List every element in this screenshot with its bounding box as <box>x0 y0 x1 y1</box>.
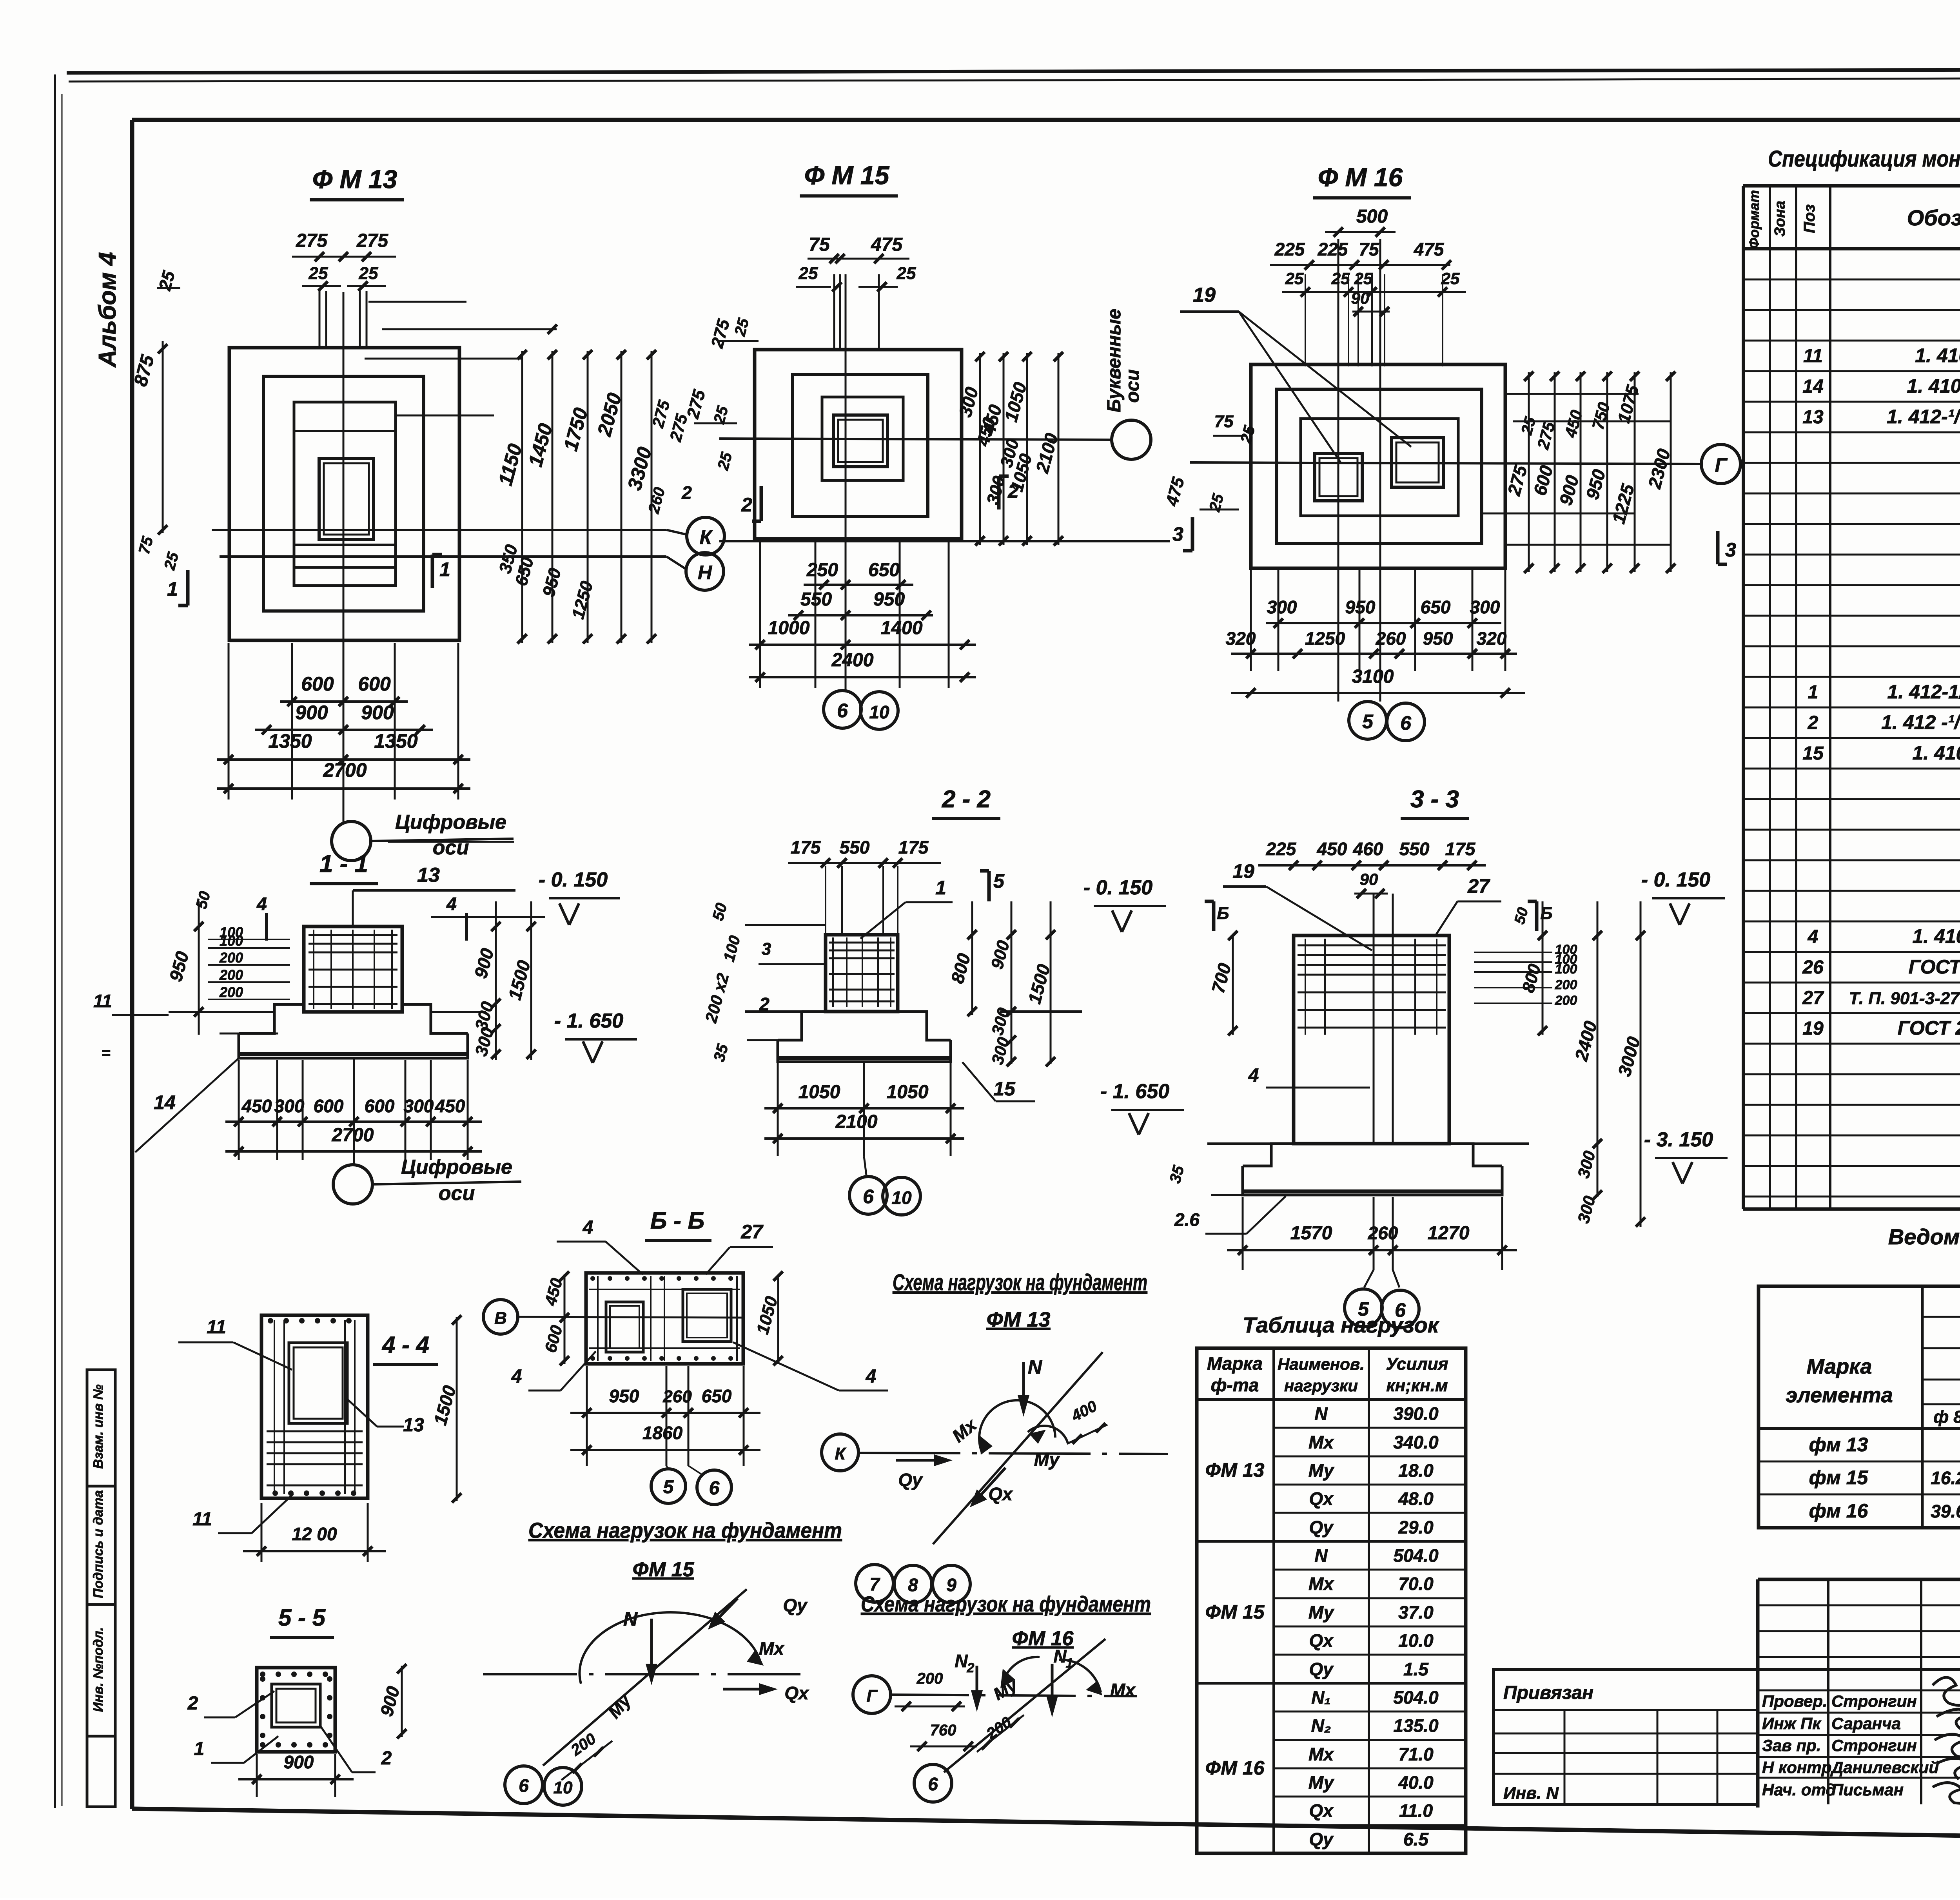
plan FM15 top extension lines <box>833 274 835 351</box>
svg-text:4: 4 <box>866 1366 877 1387</box>
section 4-4 edge dots <box>268 1318 273 1323</box>
svg-text:1860: 1860 <box>642 1423 683 1443</box>
svg-text:3: 3 <box>1725 539 1736 561</box>
svg-text:1350: 1350 <box>268 730 312 752</box>
plan FM13 axis circle bottom <box>332 821 371 861</box>
svg-text:2100: 2100 <box>835 1111 878 1132</box>
svg-text:250: 250 <box>806 560 838 580</box>
svg-text:К: К <box>835 1444 846 1463</box>
svg-text:Письман: Письман <box>1831 1780 1904 1799</box>
section 1-1 axis circle <box>333 1165 372 1204</box>
svg-text:6.5: 6.5 <box>1403 1829 1429 1849</box>
section 5-5 outer rect <box>257 1668 335 1752</box>
load table grid <box>1197 1348 1466 1853</box>
svg-text:ФМ 15: ФМ 15 <box>633 1558 695 1581</box>
svg-text:Qх: Qх <box>988 1484 1013 1504</box>
svg-text:450: 450 <box>435 1096 465 1116</box>
svg-text:13: 13 <box>1802 407 1824 428</box>
svg-text:Подпись и дата: Подпись и дата <box>91 1490 106 1598</box>
svg-text:175: 175 <box>898 837 929 858</box>
load scheme FM16 axis circle 6 <box>914 1764 952 1802</box>
svg-text:Ф М 15: Ф М 15 <box>804 161 890 190</box>
axis H line <box>220 555 666 558</box>
svg-text:1: 1 <box>194 1739 205 1759</box>
steel table grid <box>1759 1286 1960 1528</box>
svg-text:ФМ 16: ФМ 16 <box>1205 1757 1265 1779</box>
main frame <box>132 118 1960 122</box>
plan FM13 column <box>319 459 374 539</box>
svg-text:Формат: Формат <box>1746 190 1762 249</box>
svg-text:- 0. 150: - 0. 150 <box>539 868 608 891</box>
plan FM16 ring2 <box>1277 389 1482 544</box>
svg-text:Ф М 13: Ф М 13 <box>312 165 397 194</box>
svg-text:12 00: 12 00 <box>292 1524 337 1544</box>
svg-text:1: 1 <box>935 877 946 899</box>
section 1-1 step <box>274 1004 304 1012</box>
svg-text:2: 2 <box>681 482 692 503</box>
privyazan block <box>1494 1670 1758 1804</box>
svg-text:475: 475 <box>1414 239 1445 259</box>
svg-text:15: 15 <box>993 1078 1016 1100</box>
plan FM16 center axis <box>1190 462 1701 464</box>
section 5-5 bottom dim 900 <box>256 1754 258 1797</box>
svg-text:10: 10 <box>869 702 889 722</box>
section 2-2 column <box>826 935 898 1012</box>
plan FM15 lower axis line <box>719 540 1170 542</box>
svg-text:нагрузки: нагрузки <box>1284 1376 1358 1395</box>
section 5-5 right dim 900 <box>401 1666 403 1737</box>
svg-text:25: 25 <box>897 264 916 283</box>
svg-text:11: 11 <box>192 1509 212 1530</box>
svg-text:Буквенные: Буквенные <box>1104 309 1125 413</box>
section 3-3 left dims <box>1232 935 1234 1035</box>
svg-text:К: К <box>700 526 713 548</box>
section 6-6 rebar lines <box>597 1276 599 1361</box>
svg-text:1050: 1050 <box>799 1082 840 1102</box>
section 2-2 ground line <box>745 1010 804 1013</box>
svg-text:950: 950 <box>609 1386 639 1406</box>
svg-text:Усилия: Усилия <box>1386 1354 1448 1374</box>
svg-text:25: 25 <box>799 264 818 283</box>
svg-text:475: 475 <box>871 234 903 255</box>
svg-text:ФМ 13: ФМ 13 <box>1205 1459 1265 1481</box>
section 6-6 right dim 1050 <box>777 1275 779 1364</box>
svg-text:2: 2 <box>967 1661 975 1675</box>
svg-text:19: 19 <box>1802 1018 1824 1039</box>
plan FM13 outer rect <box>229 348 459 640</box>
plan FM15 section mark 2 left <box>760 486 763 521</box>
svg-text:Qу: Qу <box>1309 1659 1334 1679</box>
load scheme FM15 axis circles 6 10 <box>505 1766 543 1804</box>
svg-text:3100: 3100 <box>1352 666 1394 687</box>
title block signatures scribble <box>1933 1677 1960 1804</box>
svg-text:100: 100 <box>1555 962 1577 977</box>
plan FM15 ring2 <box>793 375 928 517</box>
svg-text:Qу: Qу <box>1309 1829 1334 1849</box>
section 3-3 right dims <box>1542 901 1544 1035</box>
svg-text:11: 11 <box>1803 346 1823 366</box>
load scheme FM15 dim 200 <box>561 1741 612 1780</box>
load scheme FM16 My arc <box>1002 1657 1040 1686</box>
svg-text:В: В <box>494 1309 507 1328</box>
svg-text:175: 175 <box>1445 839 1476 859</box>
plan FM15 section mark 2 right <box>997 476 1001 509</box>
load scheme FM15 Qx arrow <box>723 1688 769 1691</box>
svg-text:Му: Му <box>1308 1602 1335 1623</box>
svg-text:100: 100 <box>220 933 243 949</box>
plan FM16 right horizontal stubs <box>1507 393 1639 395</box>
svg-text:ГОСТ 23279-85: ГОСТ 23279-85 <box>1909 956 1960 978</box>
plan FM16 bottom axis circles <box>1349 702 1387 739</box>
svg-text:71.0: 71.0 <box>1398 1744 1434 1764</box>
svg-text:Н: Н <box>698 562 712 584</box>
section 4-4 outer rect <box>261 1315 368 1498</box>
load scheme FM16 diagonal <box>944 1639 1105 1772</box>
section 6-6 bottom extension lines <box>586 1366 588 1466</box>
svg-text:Б: Б <box>1217 904 1229 923</box>
svg-text:Цифровые: Цифровые <box>401 1156 512 1178</box>
svg-text:6: 6 <box>928 1774 938 1794</box>
svg-text:27: 27 <box>740 1221 764 1243</box>
svg-text:600: 600 <box>365 1096 395 1116</box>
svg-text:1400: 1400 <box>881 618 923 638</box>
svg-text:Схема нагрузок на фундамент: Схема нагрузок на фундамент <box>861 1592 1151 1616</box>
svg-text:5: 5 <box>1362 711 1374 732</box>
load scheme FM13 diagonal <box>933 1352 1103 1544</box>
svg-text:1. 412-1/77-8.3 - 020: 1. 412-1/77-8.3 - 020 <box>1887 681 1960 703</box>
plan FM16 vertical axes <box>1338 239 1339 702</box>
svg-text:320: 320 <box>1477 628 1507 649</box>
svg-text:Qу: Qу <box>898 1470 923 1490</box>
axis circle G <box>1701 444 1740 484</box>
svg-text:390.0: 390.0 <box>1393 1403 1439 1424</box>
title block signature rows <box>1758 1690 1960 1692</box>
svg-text:90: 90 <box>1360 870 1378 888</box>
axis H circle <box>686 553 724 590</box>
svg-text:Qх: Qх <box>784 1683 809 1703</box>
section 6-6 inner right square <box>683 1289 731 1342</box>
svg-text:19: 19 <box>1232 860 1254 882</box>
section 1-1 bottom extension lines <box>238 1060 240 1160</box>
svg-text:25: 25 <box>1441 269 1460 288</box>
svg-text:2: 2 <box>759 994 769 1014</box>
load scheme FM16 axis line <box>891 1695 1137 1696</box>
svg-text:25: 25 <box>1354 269 1373 288</box>
svg-text:26: 26 <box>1802 957 1824 978</box>
svg-text:Провер.: Провер. <box>1762 1692 1828 1710</box>
svg-text:19: 19 <box>1193 284 1216 306</box>
load scheme FM13 axis circles 7 8 9 <box>856 1565 893 1602</box>
section 5-5 inner rect <box>272 1684 320 1727</box>
svg-text:Г: Г <box>1715 454 1728 476</box>
svg-text:Мх: Мх <box>759 1638 785 1659</box>
svg-text:1050: 1050 <box>887 1082 929 1102</box>
svg-text:N: N <box>1053 1646 1067 1666</box>
svg-text:200: 200 <box>1555 993 1577 1008</box>
svg-text:Qх: Qх <box>1309 1800 1334 1821</box>
svg-text:Qу: Qу <box>783 1595 808 1615</box>
axis K circle right <box>822 1434 858 1471</box>
svg-text:25: 25 <box>309 264 328 283</box>
svg-text:6: 6 <box>1400 712 1412 734</box>
svg-text:200: 200 <box>1555 977 1577 992</box>
section 4-4 bottom dim 1200 <box>261 1503 263 1562</box>
svg-text:N: N <box>955 1651 968 1671</box>
svg-text:Б - Б: Б - Б <box>650 1207 704 1234</box>
outer scan border top wavy line <box>67 69 1960 73</box>
svg-text:950: 950 <box>1423 628 1453 649</box>
svg-text:450: 450 <box>1317 839 1347 859</box>
svg-text:2: 2 <box>187 1693 198 1714</box>
svg-text:Привязан: Привязан <box>1503 1682 1593 1703</box>
svg-text:500: 500 <box>1356 206 1388 227</box>
svg-text:Инв. №подл.: Инв. №подл. <box>91 1627 106 1712</box>
plan FM13 vertical axis <box>343 292 345 822</box>
svg-text:2700: 2700 <box>332 1125 374 1146</box>
svg-text:оси: оси <box>439 1182 475 1205</box>
section 3-3 steps and slab <box>1243 1144 1294 1166</box>
svg-text:550: 550 <box>840 837 870 858</box>
svg-text:1.5: 1.5 <box>1403 1659 1429 1679</box>
load table rows FM15 <box>1274 1569 1466 1571</box>
svg-text:300: 300 <box>1470 597 1500 617</box>
svg-text:1270: 1270 <box>1428 1223 1470 1244</box>
plan FM13 ring2 <box>263 376 424 611</box>
plan FM15 outer rect <box>755 350 962 539</box>
svg-text:4: 4 <box>1808 926 1818 947</box>
svg-text:4: 4 <box>1248 1065 1259 1086</box>
svg-text:6: 6 <box>863 1186 874 1207</box>
svg-text:1. 410 -3. 1 -12: 1. 410 -3. 1 -12 <box>1912 742 1960 764</box>
svg-text:200: 200 <box>916 1670 943 1687</box>
svg-text:ФМ 15: ФМ 15 <box>1205 1601 1265 1623</box>
plan FM13 section mark 1 right <box>431 555 434 588</box>
svg-text:75: 75 <box>809 234 830 255</box>
section 1-1 right dims <box>495 901 497 1060</box>
svg-text:Поз: Поз <box>1801 204 1818 233</box>
svg-text:оси: оси <box>1122 369 1143 402</box>
svg-text:Мх: Мх <box>1308 1744 1334 1764</box>
plan FM16 section mark 3 left <box>1191 517 1194 551</box>
svg-text:4: 4 <box>511 1366 522 1387</box>
plan FM13 ring3 <box>294 402 396 586</box>
svg-text:260: 260 <box>1376 628 1406 649</box>
svg-text:260: 260 <box>1368 1223 1398 1243</box>
svg-text:2400: 2400 <box>831 650 874 671</box>
svg-text:N: N <box>1028 1356 1042 1378</box>
svg-text:6: 6 <box>837 700 848 722</box>
section 6-6 left dims <box>564 1275 566 1364</box>
svg-text:элемента: элемента <box>1786 1383 1893 1407</box>
svg-text:2.6: 2.6 <box>1174 1209 1200 1230</box>
load table rows FM16 <box>1274 1711 1466 1713</box>
section 2-2 flag 5 top <box>987 871 991 901</box>
svg-text:4: 4 <box>256 894 267 914</box>
load scheme FM13 dim 400 <box>1067 1425 1107 1444</box>
svg-text:- 0. 150: - 0. 150 <box>1083 876 1152 899</box>
svg-text:135.0: 135.0 <box>1393 1715 1439 1736</box>
section 2-2 axis circles <box>864 1156 866 1175</box>
svg-text:Н контр: Н контр <box>1762 1758 1831 1777</box>
svg-text:16.2: 16.2 <box>1931 1468 1960 1488</box>
svg-text:Qх: Qх <box>1309 1488 1334 1509</box>
svg-text:1. 410-3. 1 - 01: 1. 410-3. 1 - 01 <box>1912 925 1960 947</box>
svg-text:275: 275 <box>296 230 328 251</box>
svg-text:Qу: Qу <box>1309 1517 1334 1537</box>
svg-text:Стронгин: Стронгин <box>1831 1736 1917 1755</box>
svg-text:фм 15: фм 15 <box>1809 1467 1869 1488</box>
svg-text:Мх: Мх <box>1308 1574 1334 1594</box>
svg-text:600: 600 <box>314 1096 344 1116</box>
svg-text:Саранча: Саранча <box>1831 1714 1901 1733</box>
svg-text:Марка: Марка <box>1807 1355 1872 1378</box>
svg-text:600: 600 <box>301 673 334 695</box>
svg-text:3: 3 <box>762 939 771 959</box>
plan FM13 right horizontal stubs <box>368 301 466 303</box>
svg-text:25: 25 <box>1285 269 1304 288</box>
svg-text:Данилевский: Данилевский <box>1830 1758 1939 1777</box>
plan FM15 bottom extension lines <box>759 541 761 688</box>
svg-text:N: N <box>1314 1403 1328 1424</box>
spec table grid <box>1742 186 1745 1209</box>
svg-text:18.0: 18.0 <box>1398 1460 1434 1481</box>
section 2-2 right dims <box>971 901 973 1015</box>
svg-text:Инж Пк: Инж Пк <box>1762 1714 1821 1733</box>
svg-text:- 0. 150: - 0. 150 <box>1641 868 1710 891</box>
svg-text:2: 2 <box>741 494 752 516</box>
svg-text:1: 1 <box>439 558 450 580</box>
load scheme FM16 dims 760 200 <box>910 1746 977 1748</box>
svg-text:Ф М 16: Ф М 16 <box>1318 163 1403 192</box>
section 3-3 flag b right <box>1535 901 1539 931</box>
section 3-3 ground line <box>1207 1142 1272 1145</box>
svg-text:1: 1 <box>167 578 178 600</box>
section 4-4 rebar lines <box>267 1430 363 1432</box>
svg-text:27: 27 <box>1467 875 1490 897</box>
svg-text:Т. П. 901-3-276. 89 КЖ. И: Т. П. 901-3-276. 89 КЖ. И. 90.0.0 <box>1849 989 1960 1008</box>
svg-text:27: 27 <box>1802 988 1824 1008</box>
svg-text:- 3. 150: - 3. 150 <box>1644 1128 1713 1151</box>
svg-text:450: 450 <box>241 1096 272 1116</box>
plan FM15 right dim lines <box>979 353 981 545</box>
section 2-2 steps <box>778 1012 802 1040</box>
svg-text:15: 15 <box>1802 743 1824 764</box>
svg-text:200: 200 <box>219 984 243 1000</box>
section 4-4 right dim 1500 <box>456 1317 458 1501</box>
svg-text:Цифровые: Цифровые <box>395 811 506 834</box>
svg-text:504.0: 504.0 <box>1393 1687 1439 1708</box>
svg-text:11.0: 11.0 <box>1399 1800 1433 1821</box>
svg-text:Му: Му <box>1308 1772 1335 1793</box>
svg-text:300: 300 <box>404 1096 434 1116</box>
svg-text:25: 25 <box>359 264 378 283</box>
svg-text:75: 75 <box>1359 239 1379 259</box>
plan FM16 column right <box>1392 438 1443 487</box>
svg-text:40.0: 40.0 <box>1398 1772 1434 1793</box>
svg-text:200: 200 <box>219 967 243 983</box>
svg-text:5: 5 <box>993 870 1005 892</box>
load scheme FM16 dim 200 left <box>895 1706 965 1708</box>
section 6-6 axis circles 5 6 <box>666 1466 668 1469</box>
svg-text:950: 950 <box>1345 597 1376 617</box>
svg-text:275: 275 <box>356 230 388 251</box>
svg-text:2: 2 <box>1808 712 1818 733</box>
plan FM15 center axis line <box>719 439 1112 440</box>
plan FM15 vertical axis <box>845 274 847 691</box>
svg-text:320: 320 <box>1226 628 1256 649</box>
load scheme FM15 Qy arrow <box>714 1598 738 1623</box>
svg-text:760: 760 <box>930 1722 956 1739</box>
svg-text:4: 4 <box>583 1217 593 1238</box>
svg-text:260: 260 <box>662 1387 692 1406</box>
svg-text:1570: 1570 <box>1290 1223 1332 1244</box>
svg-text:Схема нагрузок на фундамент: Схема нагрузок на фундамент <box>528 1518 842 1543</box>
svg-text:- 1. 650: - 1. 650 <box>1100 1080 1169 1103</box>
svg-text:14: 14 <box>1802 376 1823 397</box>
section 3-3 column <box>1294 935 1449 1144</box>
svg-text:225: 225 <box>1318 239 1348 259</box>
svg-text:29.0: 29.0 <box>1398 1517 1434 1537</box>
svg-text:Qх: Qх <box>1309 1630 1334 1651</box>
svg-text:Альбом 4: Альбом 4 <box>94 252 121 368</box>
load scheme FM16 axis circle G <box>853 1676 891 1713</box>
axis K circle <box>687 517 724 555</box>
plan FM16 outer rect <box>1251 364 1505 568</box>
svg-text:Мх: Мх <box>1308 1432 1334 1452</box>
plan FM16 column left <box>1315 453 1362 501</box>
svg-text:14: 14 <box>154 1091 176 1113</box>
svg-text:Наименов.: Наименов. <box>1278 1355 1365 1373</box>
svg-text:ФМ 13: ФМ 13 <box>987 1308 1051 1331</box>
svg-text:фм 13: фм 13 <box>1809 1434 1868 1456</box>
svg-text:460: 460 <box>1353 839 1383 859</box>
svg-text:1000: 1000 <box>768 618 810 638</box>
svg-text:2: 2 <box>381 1748 392 1769</box>
section 3-3 flag b left <box>1212 901 1216 931</box>
svg-text:Зав пр.: Зав пр. <box>1762 1736 1821 1755</box>
svg-text:=: = <box>101 1044 110 1062</box>
svg-text:Зона: Зона <box>1772 201 1788 237</box>
plan FM13 top extension lines <box>319 291 321 349</box>
svg-text:Марка: Марка <box>1207 1353 1263 1374</box>
svg-text:5 - 5: 5 - 5 <box>278 1604 326 1631</box>
svg-text:Му: Му <box>1308 1460 1335 1481</box>
plan FM15 bottom axis circles <box>824 691 861 728</box>
load scheme FM13 Mx arc <box>979 1400 1055 1452</box>
svg-text:175: 175 <box>791 837 821 858</box>
plan FM16 ring3 <box>1301 419 1458 516</box>
title block top small grid <box>1758 1604 1960 1606</box>
svg-text:Г: Г <box>866 1686 878 1706</box>
svg-text:фм 16: фм 16 <box>1809 1500 1869 1522</box>
svg-text:Инв. N: Инв. N <box>1503 1784 1559 1803</box>
svg-text:Обозначение: Обозначение <box>1907 205 1960 230</box>
svg-text:13: 13 <box>417 864 440 887</box>
svg-text:13: 13 <box>403 1415 424 1436</box>
svg-text:1 - 1: 1 - 1 <box>319 850 368 877</box>
plan FM13 right dim lines <box>521 351 523 643</box>
svg-text:1. 410 - 3. 1 - 12: 1. 410 - 3. 1 - 12 <box>1907 375 1960 397</box>
section 1-1 bottom slab <box>239 1033 468 1058</box>
svg-text:11: 11 <box>207 1317 226 1338</box>
svg-text:5: 5 <box>663 1477 674 1498</box>
svg-text:N: N <box>1314 1545 1328 1566</box>
axis K line <box>212 529 666 531</box>
section 6-6 dots <box>590 1276 595 1281</box>
svg-text:10: 10 <box>891 1187 912 1208</box>
svg-text:4: 4 <box>446 894 457 914</box>
svg-text:3: 3 <box>1172 523 1183 545</box>
